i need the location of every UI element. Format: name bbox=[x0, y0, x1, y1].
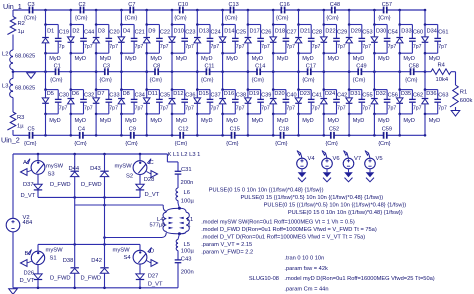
svg-text:C14: C14 bbox=[255, 63, 265, 69]
svg-text:MyD: MyD bbox=[125, 56, 137, 62]
svg-text:D10: D10 bbox=[174, 28, 184, 34]
svg-text:D35: D35 bbox=[401, 91, 411, 97]
wire bbox=[177, 263, 179, 288]
svg-text:C39: C39 bbox=[261, 92, 271, 98]
svg-text:MyD: MyD bbox=[201, 118, 213, 124]
capacitor C17 value {Cm} (mid bus) bbox=[302, 63, 316, 83]
svg-text:C58: C58 bbox=[409, 63, 419, 69]
svg-text:D44: D44 bbox=[69, 166, 80, 172]
diode D44 D_FWD bbox=[50, 154, 80, 197]
svg-text:7p7: 7p7 bbox=[261, 105, 270, 111]
ground (below R1) bbox=[451, 111, 460, 117]
svg-text:D24: D24 bbox=[325, 91, 335, 97]
svg-text:MyD: MyD bbox=[125, 118, 137, 124]
svg-text:D18: D18 bbox=[275, 28, 285, 34]
svg-text:C3: C3 bbox=[103, 63, 110, 69]
svg-text:C16: C16 bbox=[280, 2, 290, 8]
svg-text:V6: V6 bbox=[333, 156, 340, 162]
inductor L1 (transformer secondary) bbox=[179, 208, 193, 234]
svg-text:7p7: 7p7 bbox=[312, 105, 321, 111]
diode D8 (MyD) with capacitor C34 7p7, lower cell 3 bbox=[118, 72, 145, 136]
svg-text:D_FWD: D_FWD bbox=[81, 182, 102, 188]
wire H-bridge top rail bbox=[13, 153, 167, 156]
svg-text:C23: C23 bbox=[185, 30, 195, 36]
transformer coil loop marks bbox=[169, 217, 184, 229]
svg-text:D12: D12 bbox=[173, 91, 183, 97]
svg-text:C63: C63 bbox=[438, 92, 448, 98]
svg-text:7p7: 7p7 bbox=[236, 44, 245, 50]
svg-text:D_FWD: D_FWD bbox=[50, 275, 71, 281]
diode D37 D_VT bbox=[21, 182, 43, 199]
svg-text:1µ: 1µ bbox=[17, 124, 24, 130]
svg-text:D31: D31 bbox=[350, 91, 360, 97]
svg-text:{Cm}: {Cm} bbox=[125, 141, 138, 147]
diode D28 D_VT bbox=[136, 177, 160, 198]
svg-text:D34: D34 bbox=[427, 28, 437, 34]
resistor R1 600k bbox=[450, 85, 473, 107]
voltage source V6 with ground bbox=[322, 151, 340, 182]
capacitor C1 value {Cm} (mid bus) bbox=[50, 63, 63, 83]
inductor L3 68.0625 bbox=[2, 78, 35, 97]
svg-text:C61: C61 bbox=[438, 30, 448, 36]
svg-text:D3: D3 bbox=[98, 28, 105, 34]
svg-text:R2: R2 bbox=[18, 21, 25, 27]
switch S1 mySW bbox=[31, 244, 63, 274]
svg-text:MyD: MyD bbox=[150, 56, 162, 62]
svg-text:C60: C60 bbox=[413, 30, 423, 36]
wire bbox=[167, 154, 178, 162]
wire bbox=[178, 201, 181, 210]
svg-text:7p7: 7p7 bbox=[337, 44, 346, 50]
SPICE directives text block bbox=[201, 188, 435, 293]
svg-text:C2: C2 bbox=[79, 2, 86, 8]
node Uin_2 bbox=[1, 136, 20, 145]
svg-text:C18: C18 bbox=[279, 127, 289, 133]
svg-text:MyD: MyD bbox=[226, 56, 238, 62]
svg-text:C57: C57 bbox=[382, 2, 392, 8]
svg-text:D28: D28 bbox=[144, 177, 155, 183]
svg-text:7p7: 7p7 bbox=[160, 44, 169, 50]
svg-text:mySW: mySW bbox=[113, 248, 131, 254]
wire bbox=[12, 232, 14, 288]
wire bridge rail D bbox=[38, 243, 140, 246]
svg-text:68.0625: 68.0625 bbox=[15, 86, 35, 92]
capacitor C43 200n bbox=[175, 257, 194, 276]
svg-text:C37: C37 bbox=[211, 92, 221, 98]
svg-text:C59: C59 bbox=[382, 127, 392, 133]
svg-text:C41: C41 bbox=[312, 92, 322, 98]
svg-text:D30: D30 bbox=[376, 28, 386, 34]
wire bottom bus Uin_2 rail bbox=[13, 134, 426, 137]
diode D26 D_VT bbox=[20, 270, 43, 288]
svg-text:S2: S2 bbox=[126, 173, 133, 179]
svg-text:MyD: MyD bbox=[302, 118, 314, 124]
svg-text:7p7: 7p7 bbox=[388, 105, 397, 111]
capacitor C16 value {Cm} (top bus) bbox=[276, 2, 290, 22]
svg-text:{Cm}: {Cm} bbox=[326, 16, 339, 22]
svg-text:D4: D4 bbox=[123, 28, 130, 34]
ground (mid bus) bbox=[27, 73, 36, 79]
svg-text:7p7: 7p7 bbox=[388, 44, 397, 50]
diode D4 (MyD) with capacitor C21 7p7, upper cell 3 bbox=[118, 10, 145, 72]
svg-text:C15: C15 bbox=[230, 127, 240, 133]
svg-text:MyD: MyD bbox=[302, 56, 314, 62]
svg-text:7p7: 7p7 bbox=[109, 44, 118, 50]
svg-text:C54: C54 bbox=[388, 30, 398, 36]
svg-text:{Cm}: {Cm} bbox=[275, 141, 288, 147]
svg-text:D_VT: D_VT bbox=[21, 193, 36, 199]
diode D14 (MyD) with capacitor C25 7p7, upper cell 7 bbox=[219, 10, 246, 72]
svg-text:D2: D2 bbox=[72, 28, 79, 34]
svg-text:C5: C5 bbox=[28, 127, 35, 133]
inductor L4 577u8 (transformer primary) bbox=[150, 205, 180, 238]
svg-text:{Cm}: {Cm} bbox=[74, 141, 87, 147]
svg-text:D9: D9 bbox=[148, 28, 155, 34]
svg-text:{Cm}: {Cm} bbox=[378, 16, 391, 22]
svg-text:D5: D5 bbox=[47, 91, 54, 97]
switch S2 mySW bbox=[115, 154, 147, 184]
svg-text:L6: L6 bbox=[184, 190, 190, 196]
diode D1 (MyD) with capacitor C19 7p7, upper cell 0 bbox=[42, 10, 69, 72]
diode D27 D_VT bbox=[136, 273, 163, 287]
svg-text:K L1 L2 L3 1: K L1 L2 L3 1 bbox=[168, 152, 201, 158]
capacitor C13 value {Cm} (top bus) bbox=[225, 2, 239, 22]
wire bbox=[12, 154, 14, 218]
svg-text:{Cm}: {Cm} bbox=[174, 16, 187, 22]
svg-text:Uin_1: Uin_1 bbox=[3, 2, 22, 11]
svg-text:D19: D19 bbox=[249, 91, 259, 97]
wire bbox=[455, 107, 457, 111]
diode D16 (MyD) with capacitor C38 7p7, lower cell 7 bbox=[219, 72, 246, 136]
wire bbox=[177, 251, 179, 260]
svg-text:7p7: 7p7 bbox=[438, 105, 447, 111]
capacitor C11 value {Cm} (mid bus) bbox=[201, 63, 214, 83]
capacitor C15 value {Cm} (bottom bus) bbox=[226, 127, 240, 147]
svg-text:C9: C9 bbox=[129, 127, 136, 133]
svg-text:C19: C19 bbox=[59, 30, 69, 36]
svg-text:7p7: 7p7 bbox=[160, 105, 169, 111]
svg-text:{Cm}: {Cm} bbox=[226, 141, 239, 147]
svg-text:{Cm}: {Cm} bbox=[276, 16, 289, 22]
svg-text:mySW: mySW bbox=[46, 163, 64, 169]
svg-text:.model D_VT D(Ron=0u1 Roff=1: .model D_VT D(Ron=0u1 Roff=1000MEG Vfwd … bbox=[201, 235, 365, 241]
svg-text:C10: C10 bbox=[178, 2, 188, 8]
wire bridge output rail A bbox=[38, 196, 140, 199]
svg-text:C25: C25 bbox=[236, 30, 246, 36]
svg-text:{Cm}: {Cm} bbox=[75, 16, 88, 22]
svg-text:7p7: 7p7 bbox=[286, 44, 295, 50]
capacitor C2 value {Cm} (top bus) bbox=[75, 2, 88, 22]
diode D34 (MyD) with capacitor C61 7p7, upper cell 15 bbox=[422, 10, 449, 72]
svg-text:C24: C24 bbox=[211, 30, 221, 36]
capacitor C8 value {Cm} (mid bus) bbox=[150, 63, 163, 83]
svg-text:C62: C62 bbox=[413, 92, 423, 98]
wire bridge rail C bbox=[103, 236, 161, 239]
svg-text:MyD: MyD bbox=[403, 56, 415, 62]
svg-text:D_FWD: D_FWD bbox=[81, 275, 102, 281]
svg-text:1µ: 1µ bbox=[18, 29, 25, 35]
svg-text:C44: C44 bbox=[84, 30, 94, 36]
svg-text:{Cm}: {Cm} bbox=[201, 77, 214, 83]
svg-text:MyD: MyD bbox=[328, 118, 340, 124]
wire bbox=[177, 162, 179, 171]
wire bbox=[12, 70, 14, 72]
capacitor C52 value {Cm} (bottom bus) bbox=[325, 127, 339, 147]
svg-text:{Cm}: {Cm} bbox=[325, 141, 338, 147]
diode D7 (MyD) with capacitor C33 7p7, lower cell 2 bbox=[93, 72, 120, 136]
svg-text:{Cm}: {Cm} bbox=[125, 16, 138, 22]
svg-text:{Cm}: {Cm} bbox=[24, 141, 37, 147]
svg-text:7p7: 7p7 bbox=[413, 44, 422, 50]
svg-text:MyD: MyD bbox=[429, 56, 441, 62]
diode D3 (MyD) with capacitor C20 7p7, upper cell 2 bbox=[93, 10, 120, 72]
svg-text:L2: L2 bbox=[2, 52, 8, 58]
diode D36 (MyD) with capacitor C63 7p7, lower cell 15 bbox=[422, 72, 449, 136]
node Uin_1 bbox=[3, 2, 22, 11]
svg-text:68.0625: 68.0625 bbox=[15, 54, 35, 60]
capacitor C57 value {Cm} (top bus) bbox=[378, 2, 392, 22]
svg-text:{Cm}: {Cm} bbox=[50, 77, 63, 83]
svg-text:.tran 0 10 0 10n: .tran 0 10 0 10n bbox=[284, 256, 324, 262]
svg-text:S4: S4 bbox=[124, 255, 132, 261]
svg-text:MyD: MyD bbox=[49, 118, 61, 124]
svg-text:V5: V5 bbox=[376, 156, 383, 162]
diode D31 (MyD) with capacitor C55 7p7, lower cell 12 bbox=[346, 72, 373, 136]
svg-text:C11: C11 bbox=[205, 63, 215, 69]
diode D13 (MyD) with capacitor C24 7p7, upper cell 6 bbox=[194, 10, 221, 72]
voltage source V4 with ground bbox=[297, 151, 316, 182]
svg-text:MyD: MyD bbox=[378, 56, 390, 62]
svg-text:S3: S3 bbox=[48, 172, 55, 178]
svg-text:MyD: MyD bbox=[176, 56, 188, 62]
svg-text:D_VT: D_VT bbox=[148, 281, 163, 287]
svg-text:100µ: 100µ bbox=[181, 248, 195, 254]
svg-text:484: 484 bbox=[23, 220, 33, 226]
svg-text:100µ: 100µ bbox=[181, 199, 195, 205]
svg-text:D43: D43 bbox=[90, 166, 101, 172]
svg-text:{Cm}: {Cm} bbox=[378, 141, 391, 147]
wire bbox=[12, 72, 14, 79]
svg-text:C43: C43 bbox=[181, 257, 192, 263]
svg-text:7p7: 7p7 bbox=[438, 44, 447, 50]
svg-text:MyD: MyD bbox=[226, 118, 238, 124]
svg-text:MyD: MyD bbox=[277, 118, 289, 124]
node C (S2 control) bbox=[147, 159, 158, 178]
capacitor C48 value {Cm} (top bus) bbox=[326, 2, 340, 22]
capacitor C14 value {Cm} (mid bus) bbox=[252, 63, 266, 83]
node D (S4 control) bbox=[147, 247, 158, 266]
svg-text:C27: C27 bbox=[286, 30, 296, 36]
diode D23 (MyD) with capacitor C41 7p7, lower cell 10 bbox=[295, 72, 322, 136]
svg-text:R3: R3 bbox=[17, 115, 24, 121]
diode D32 (MyD) with capacitor C56 7p7, lower cell 13 bbox=[371, 72, 398, 136]
diode D19 (MyD) with capacitor C39 7p7, lower cell 8 bbox=[245, 72, 272, 136]
svg-text:D7: D7 bbox=[97, 91, 104, 97]
diode D43 D_FWD bbox=[81, 154, 109, 238]
diode D5 (MyD) with capacitor C30 7p7, lower cell 0 bbox=[42, 72, 69, 136]
resistor R4 10k4 bbox=[431, 63, 451, 84]
node B (S1 control) bbox=[21, 250, 33, 267]
svg-text:D16: D16 bbox=[224, 91, 234, 97]
svg-text:C1: C1 bbox=[54, 63, 61, 69]
svg-text:D13: D13 bbox=[199, 28, 209, 34]
diode D9 (MyD) with capacitor C22 7p7, upper cell 4 bbox=[143, 10, 170, 72]
capacitor C10 value {Cm} (top bus) bbox=[174, 2, 188, 22]
diode D30 (MyD) with capacitor C54 7p7, upper cell 13 bbox=[371, 10, 398, 72]
wire bbox=[425, 71, 456, 73]
svg-text:7p7: 7p7 bbox=[185, 44, 194, 50]
svg-text:C12: C12 bbox=[178, 127, 188, 133]
capacitor C4 value {Cm} (bottom bus) bbox=[74, 127, 87, 147]
wire bbox=[74, 205, 76, 244]
svg-text:SLUG10-08: SLUG10-08 bbox=[249, 276, 279, 282]
svg-text:S1: S1 bbox=[50, 256, 57, 262]
svg-text:MyD: MyD bbox=[150, 118, 162, 124]
svg-text:7p7: 7p7 bbox=[185, 105, 194, 111]
svg-text:C17: C17 bbox=[306, 63, 316, 69]
diode D35 (MyD) with capacitor C62 7p7, lower cell 14 bbox=[396, 72, 423, 136]
svg-text:7p7: 7p7 bbox=[135, 44, 144, 50]
svg-text:D32: D32 bbox=[376, 91, 386, 97]
svg-text:D22: D22 bbox=[325, 28, 335, 34]
svg-text:C3: C3 bbox=[28, 2, 35, 8]
wire mid bus rail bbox=[12, 70, 427, 73]
svg-text:7p7: 7p7 bbox=[362, 105, 371, 111]
svg-text:D42: D42 bbox=[91, 258, 102, 264]
wire bbox=[178, 232, 181, 239]
svg-text:{Cm}: {Cm} bbox=[99, 77, 112, 83]
svg-text:C30: C30 bbox=[59, 92, 69, 98]
switch S4 mySW bbox=[113, 244, 147, 274]
svg-text:7p7: 7p7 bbox=[211, 44, 220, 50]
capacitor C18 value {Cm} (bottom bus) bbox=[275, 127, 289, 147]
svg-text:D26: D26 bbox=[24, 270, 35, 276]
svg-text:.param Cm = 44n: .param Cm = 44n bbox=[284, 286, 328, 292]
svg-text:7p7: 7p7 bbox=[236, 105, 245, 111]
svg-text:.param V_VT = 2.15: .param V_VT = 2.15 bbox=[201, 242, 252, 248]
svg-text:D11: D11 bbox=[148, 91, 158, 97]
capacitor C3 value {Cm} (mid bus) bbox=[99, 63, 112, 83]
svg-text:577µ8: 577µ8 bbox=[150, 222, 166, 228]
svg-text:D15: D15 bbox=[199, 91, 209, 97]
diode D42 D_FWD bbox=[81, 244, 109, 287]
svg-text:7p: 7p bbox=[59, 44, 65, 50]
svg-text:{Cm}: {Cm} bbox=[150, 77, 163, 83]
svg-text:7p7: 7p7 bbox=[261, 44, 270, 50]
svg-text:C4: C4 bbox=[78, 127, 85, 133]
capacitor C7 value {Cm} (top bus) bbox=[125, 2, 138, 22]
svg-text:MyD: MyD bbox=[277, 56, 289, 62]
svg-text:{Cm}: {Cm} bbox=[252, 77, 265, 83]
svg-text:MyD: MyD bbox=[403, 118, 415, 124]
diode D6 (MyD) with capacitor C32 7p7, lower cell 1 bbox=[68, 72, 95, 136]
svg-text:V4: V4 bbox=[308, 156, 316, 162]
svg-text:C52: C52 bbox=[329, 127, 339, 133]
voltage source V5 with ground bbox=[365, 151, 383, 182]
svg-text:7p7: 7p7 bbox=[362, 44, 371, 50]
svg-text:{Cm}: {Cm} bbox=[302, 77, 315, 83]
wire bbox=[12, 35, 14, 51]
svg-text:7p7: 7p7 bbox=[84, 105, 93, 111]
svg-text:mySW: mySW bbox=[115, 164, 133, 170]
svg-text:7p7: 7p7 bbox=[135, 105, 144, 111]
wire bridge rail B bbox=[75, 197, 164, 206]
wire bbox=[104, 238, 106, 245]
svg-text:C26: C26 bbox=[261, 30, 271, 36]
svg-text:D36: D36 bbox=[426, 91, 436, 97]
svg-text:MyD: MyD bbox=[353, 118, 365, 124]
svg-text:7p7: 7p7 bbox=[413, 105, 422, 111]
wire bbox=[12, 130, 14, 135]
svg-text:C28: C28 bbox=[312, 30, 322, 36]
svg-text:1: 1 bbox=[188, 222, 191, 228]
svg-text:C53: C53 bbox=[362, 30, 372, 36]
svg-text:{Cm}: {Cm} bbox=[353, 77, 366, 83]
svg-text:C31: C31 bbox=[181, 167, 192, 173]
svg-text:MyD: MyD bbox=[378, 118, 390, 124]
diode D10 (MyD) with capacitor C23 7p7, upper cell 5 bbox=[169, 10, 196, 72]
diode D29 (MyD) with capacitor C53 7p7, upper cell 12 bbox=[346, 10, 373, 72]
svg-text:MyD: MyD bbox=[328, 56, 340, 62]
voltage source V2 484 bbox=[6, 215, 33, 232]
svg-text:C55: C55 bbox=[362, 92, 372, 98]
diode D21 (MyD) with capacitor C28 7p7, upper cell 10 bbox=[295, 10, 322, 72]
svg-text:D23: D23 bbox=[300, 91, 310, 97]
svg-text:200n: 200n bbox=[181, 180, 194, 186]
diode D18 (MyD) with capacitor C27 7p7, upper cell 9 bbox=[270, 10, 297, 72]
svg-text:PULSE(0 15 0 10n 10n {(1/fsw)*: PULSE(0 15 0 10n 10n {(1/fsw)*0.48} {1/f… bbox=[288, 210, 403, 216]
svg-text:.model mySW SW(Ron=0u1 Roff=: .model mySW SW(Ron=0u1 Roff=1000MEG Vt =… bbox=[201, 220, 355, 226]
svg-text:D6: D6 bbox=[72, 91, 79, 97]
svg-text:MyD: MyD bbox=[252, 56, 264, 62]
svg-text:C13: C13 bbox=[229, 2, 239, 8]
svg-text:C49: C49 bbox=[356, 63, 366, 69]
svg-text:C7: C7 bbox=[128, 2, 135, 8]
svg-text:200n: 200n bbox=[181, 270, 194, 276]
wire left column top bbox=[12, 10, 14, 17]
svg-text:10k4: 10k4 bbox=[436, 77, 449, 83]
svg-text:MyD: MyD bbox=[176, 118, 188, 124]
svg-text:Uin_2: Uin_2 bbox=[1, 136, 20, 145]
svg-text:PULSE(0 15 {(1/fsw)*0.5} 10n: PULSE(0 15 {(1/fsw)*0.5} 10n 10n {(1/fsw… bbox=[241, 195, 384, 201]
svg-text:C48: C48 bbox=[330, 2, 340, 8]
svg-text:C8: C8 bbox=[153, 63, 160, 69]
svg-text:D29: D29 bbox=[351, 28, 361, 34]
ground (bottom rail) bbox=[9, 289, 18, 294]
inductor L6 100u bbox=[176, 188, 195, 205]
inductor L5 100u bbox=[176, 240, 194, 255]
svg-text:MyD: MyD bbox=[75, 56, 87, 62]
svg-text:C22: C22 bbox=[160, 30, 170, 36]
svg-text:PULSE(0 15 0 10n 10n {(1/fsw)*: PULSE(0 15 0 10n 10n {(1/fsw)*0.48} {1/f… bbox=[209, 188, 324, 194]
svg-text:C21: C21 bbox=[135, 30, 145, 36]
svg-text:{Cm}: {Cm} bbox=[175, 141, 188, 147]
diode D17 (MyD) with capacitor C26 7p7, upper cell 8 bbox=[245, 10, 272, 72]
resistor R2 1u bbox=[7, 17, 25, 36]
svg-text:R1: R1 bbox=[460, 90, 467, 96]
svg-text:D33: D33 bbox=[401, 28, 411, 34]
svg-text:7p7: 7p7 bbox=[211, 105, 220, 111]
svg-text:MyD: MyD bbox=[49, 56, 61, 62]
svg-text:D20: D20 bbox=[274, 91, 284, 97]
inductor L2 68.0625 bbox=[2, 50, 35, 70]
svg-text:.param fsw = 42k: .param fsw = 42k bbox=[284, 266, 328, 272]
diode D11 (MyD) with capacitor C35 7p7, lower cell 4 bbox=[143, 72, 170, 136]
switch S3 mySW bbox=[31, 154, 63, 184]
svg-text:D_FWD: D_FWD bbox=[50, 182, 71, 188]
svg-text:C29: C29 bbox=[337, 30, 347, 36]
svg-text:.param V_FWD= 2.2: .param V_FWD= 2.2 bbox=[201, 250, 253, 256]
